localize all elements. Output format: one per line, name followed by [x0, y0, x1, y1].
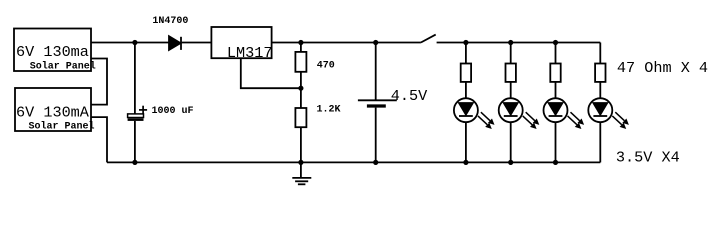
- capacitor C1 top plate: [128, 114, 144, 118]
- wire SP2 negative stub down to bottom rail: [91, 117, 107, 162]
- wire LM317 adjust pin: [241, 58, 301, 88]
- wire: [555, 43, 557, 64]
- LED D2: [454, 98, 478, 122]
- LED D3: [499, 98, 523, 122]
- wire: [465, 122, 467, 162]
- resistor R1 470: [295, 43, 306, 89]
- LED branch 2: [499, 43, 540, 163]
- resistor R5: [550, 64, 560, 82]
- node junction ground: [298, 160, 303, 165]
- svg-text:Solar Panel: Solar Panel: [29, 121, 95, 133]
- svg-text:470: 470: [317, 61, 335, 72]
- node junction top branch 3: [553, 40, 558, 45]
- wire: [555, 82, 557, 98]
- svg-text:3.5V X4: 3.5V X4: [616, 149, 680, 167]
- svg-text:1.2K: 1.2K: [317, 105, 341, 116]
- diode D1 1N4700: [169, 36, 181, 50]
- node junction bottom branch 3: [553, 160, 558, 165]
- node junction bottom branch 1: [463, 160, 468, 165]
- label capacitor polarity: [139, 106, 147, 114]
- node junction top of R1: [298, 40, 303, 45]
- op-amp U1 LM317 box: [211, 27, 271, 58]
- solar panel SP1 box: [14, 29, 91, 72]
- wire SP1 positive stub to top rail: [91, 42, 169, 44]
- svg-text:1N4700: 1N4700: [152, 16, 188, 27]
- switch SW1: [421, 35, 436, 43]
- capacitor C1 wire lower: [134, 121, 136, 162]
- node junction top branch 2: [508, 40, 513, 45]
- svg-text:6V 130mA: 6V 130mA: [16, 103, 90, 121]
- wire: [510, 82, 512, 98]
- svg-text:1000 uF: 1000 uF: [152, 106, 194, 117]
- wire: [510, 122, 512, 162]
- capacitor C1 wire upper: [134, 43, 136, 114]
- battery BT1 4.5V: [358, 43, 397, 163]
- LED branch 3: [544, 43, 585, 163]
- resistor R2 1.2K: [295, 88, 306, 162]
- svg-text:Solar Panel: Solar Panel: [30, 61, 96, 73]
- svg-text:4.5V: 4.5V: [391, 87, 428, 105]
- LED D4: [544, 98, 568, 122]
- LED branch 1: [454, 43, 495, 163]
- wire bottom rail: [107, 161, 600, 163]
- wire top rail corner down to branch 4: [599, 43, 601, 64]
- wire LM317 output: [272, 42, 421, 44]
- wire: [555, 122, 557, 162]
- wire: [599, 122, 601, 162]
- wire top rail right of switch: [437, 42, 601, 44]
- node junction top of capacitor: [132, 40, 137, 45]
- svg-text:6V 130ma: 6V 130ma: [16, 43, 89, 61]
- svg-text:47 Ohm X 4: 47 Ohm X 4: [617, 59, 708, 77]
- resistor R4: [506, 64, 516, 82]
- LED D5: [588, 98, 612, 122]
- wire diode cathode to LM317: [182, 42, 212, 44]
- node junction bottom branch 2: [508, 160, 513, 165]
- node junction bottom of battery: [373, 160, 378, 165]
- solar panel SP2 box: [15, 88, 91, 131]
- node junction bottom of capacitor: [132, 160, 137, 165]
- wire: [510, 43, 512, 64]
- ground: [292, 162, 311, 184]
- node junction adjust pin: [298, 86, 303, 91]
- LED branch 4: [588, 64, 629, 163]
- svg-text:LM317: LM317: [227, 44, 273, 62]
- resistor R3: [461, 64, 471, 82]
- wire: [465, 82, 467, 98]
- wire: [599, 82, 601, 98]
- wire SP1 negative stub to SP2 positive: [91, 59, 107, 105]
- capacitor C1 bottom plate: [128, 118, 144, 121]
- wire: [465, 43, 467, 64]
- resistor R6: [595, 64, 605, 82]
- node junction top of battery: [373, 40, 378, 45]
- node junction top branch 1: [463, 40, 468, 45]
